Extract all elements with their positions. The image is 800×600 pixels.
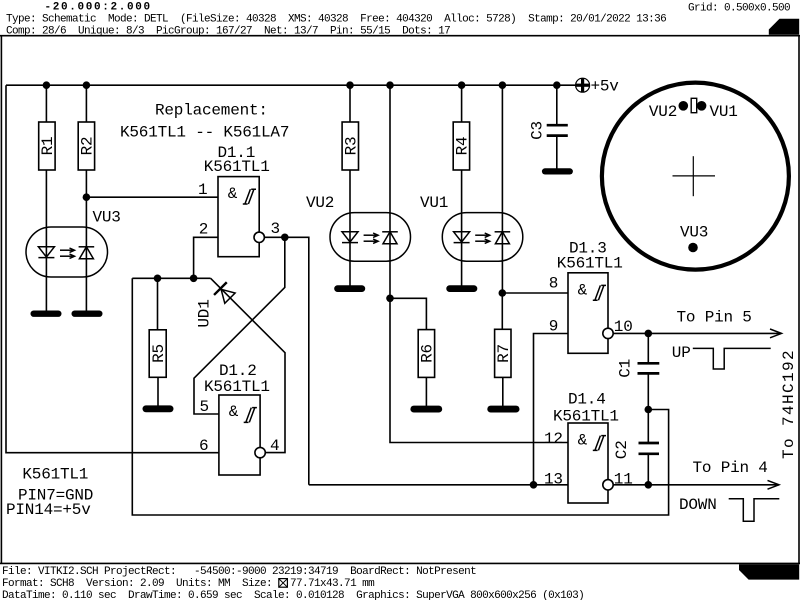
svg-text:&: &	[578, 432, 588, 450]
node junction dot pin9 pin13	[530, 481, 538, 489]
wire C1 column	[647, 333, 649, 409]
wire R1 column	[45, 85, 47, 311]
svg-text:2: 2	[199, 221, 208, 239]
svg-text:Format: SCH8 Version: 2.09 U: Format: SCH8 Version: 2.09 Units: MM Siz…	[2, 578, 375, 590]
svg-text:11: 11	[614, 471, 633, 489]
svg-text:Type: Schematic Mode: DETL (: Type: Schematic Mode: DETL (FileSize: 40…	[6, 14, 666, 26]
svg-text:To Pin 4: To Pin 4	[693, 459, 768, 477]
ground R5	[143, 405, 174, 412]
svg-text:C1: C1	[617, 359, 635, 378]
svg-text:9: 9	[549, 317, 558, 335]
resistor R3	[342, 122, 360, 170]
wire diagonal from D1.1 output to D1.2 pin 5	[194, 237, 285, 414]
svg-text:R6: R6	[419, 344, 437, 363]
svg-text:UD1: UD1	[196, 299, 214, 327]
encoder disc circle	[602, 83, 789, 270]
wire R5 column	[157, 278, 160, 406]
capacitor C1	[617, 359, 660, 378]
wire +5v rail	[6, 84, 576, 86]
workspace border	[0, 35, 800, 37]
label DOWN with pulse waveform	[679, 496, 779, 521]
node junction dot VU1 output	[499, 289, 507, 297]
svg-text:To 74HC192: To 74HC192	[780, 349, 798, 459]
status header row 0 bold coords	[6, 2, 790, 38]
wire R2 column	[85, 85, 87, 311]
svg-text:DataTime: 0.110 sec DrawTime:: DataTime: 0.110 sec DrawTime: 0.659 sec …	[2, 590, 584, 600]
svg-text:D1.4: D1.4	[568, 390, 606, 408]
resistor R7	[495, 329, 513, 377]
svg-text:Grid: 0.500x0.500: Grid: 0.500x0.500	[688, 3, 790, 15]
svg-text:K561TL1: K561TL1	[557, 254, 623, 272]
resistor R2	[78, 122, 96, 170]
svg-text:C3: C3	[529, 121, 547, 140]
optocoupler VU3	[26, 227, 108, 277]
svg-text:Replacement:: Replacement:	[155, 102, 268, 120]
capacitor C3	[529, 121, 568, 140]
wire D1.3 output to To Pin 5	[613, 332, 781, 334]
svg-text:VU1: VU1	[710, 103, 738, 121]
optocoupler VU2	[330, 213, 411, 262]
bottom-right black wedge	[739, 564, 799, 579]
power +5v symbol	[576, 78, 620, 96]
svg-text:6: 6	[199, 437, 208, 455]
svg-text:&: &	[228, 185, 238, 203]
node junction dot D1.3 out C1	[645, 330, 653, 338]
svg-text:VU2: VU2	[306, 194, 334, 212]
ground R6	[410, 406, 442, 413]
wire diagonal through diode UD1 to D1.2 output	[211, 278, 285, 452]
wire left drop from rail to D1.2 pin 6	[6, 85, 219, 453]
svg-text:R7: R7	[495, 344, 513, 363]
wire D1.1 pin 2 loop	[194, 237, 218, 278]
diode UD1	[214, 282, 236, 304]
svg-text:+5v: +5v	[591, 78, 620, 96]
node junction dot D1.4 out C2	[645, 481, 653, 489]
wire D1.3 pin 9 to pin 13 net	[534, 334, 569, 485]
wire D1.4 pin 13 input	[309, 484, 568, 486]
svg-text:R2: R2	[79, 137, 97, 156]
arrowhead To Pin 4	[768, 480, 780, 489]
label D1.2	[204, 362, 270, 396]
label UP with pulse waveform	[672, 344, 771, 369]
ground VU3 right	[72, 311, 103, 317]
svg-text:&: &	[578, 282, 588, 300]
svg-text:VU3: VU3	[93, 209, 121, 227]
svg-text:VU2: VU2	[649, 103, 677, 121]
top-right black wedge	[769, 19, 799, 35]
node junction dot D1.1 output	[281, 234, 289, 242]
node VU1 sensor dot on disc	[697, 101, 707, 111]
node junction dot C1 C2	[645, 406, 653, 414]
svg-text:13: 13	[544, 471, 563, 489]
footer	[2, 566, 584, 600]
svg-text:K561TL1: K561TL1	[204, 158, 270, 176]
op-amp gate D1.4	[568, 423, 613, 503]
op-amp gate D1.1	[218, 177, 264, 257]
svg-text:3: 3	[271, 220, 280, 238]
wire R4 column through VU1 LED	[461, 85, 463, 286]
ground C3	[542, 168, 573, 174]
op-amp gate D1.2	[219, 395, 265, 475]
svg-text:PIN14=+5v: PIN14=+5v	[6, 501, 91, 519]
wire D1.1 pin 1 input	[86, 196, 218, 198]
svg-text:&: &	[229, 403, 239, 421]
resistor R6	[418, 330, 436, 378]
svg-text:1: 1	[198, 181, 207, 199]
svg-text:K561TL1: K561TL1	[204, 378, 270, 396]
wire net278 down to bottom bus to C1C2 node	[132, 278, 668, 515]
disc slot window	[691, 98, 697, 112]
svg-text:R3: R3	[343, 137, 361, 156]
node VU2 sensor dot on disc	[679, 101, 689, 111]
wire VU1 output to R7 and D1.3 pin 8	[502, 293, 568, 406]
node VU3 sensor dot on disc	[688, 243, 698, 253]
wire VU2 output to R6 and D1.4 pin 12	[390, 298, 568, 442]
node junction dots net278	[154, 275, 198, 283]
arrowhead To Pin 5	[770, 329, 782, 338]
svg-text:5: 5	[200, 398, 209, 416]
node junction dot R2 to pin1	[83, 193, 91, 201]
wire VU2 phototriac column	[389, 85, 391, 298]
svg-text:C2: C2	[613, 440, 631, 459]
svg-text:UP: UP	[672, 344, 691, 362]
svg-text:8: 8	[549, 275, 558, 293]
wire node net278 horizontal	[132, 277, 210, 279]
resistor R1	[39, 122, 57, 170]
op-amp gate D1.3	[568, 273, 613, 354]
ground VU1	[446, 285, 477, 292]
ground VU2	[334, 285, 365, 292]
svg-text:VU3: VU3	[680, 223, 708, 241]
node junction dot VU2 output	[386, 295, 394, 303]
label D1.1	[204, 144, 270, 176]
svg-text:File: VITKI2.SCH ProjectRect:: File: VITKI2.SCH ProjectRect: -54500:-90…	[2, 566, 476, 578]
wire C2 column	[647, 410, 649, 485]
resistor R5	[149, 330, 168, 378]
svg-text:R1: R1	[39, 137, 57, 156]
wire D1.4 output to To Pin 4	[613, 484, 779, 486]
node junction dots on +5v rail	[43, 81, 561, 89]
svg-text:R5: R5	[150, 344, 168, 363]
label D1.4	[553, 390, 619, 425]
wire C3 column	[556, 85, 558, 169]
svg-text:K561TL1 -- K561LA7: K561TL1 -- K561LA7	[120, 124, 289, 142]
svg-text:DOWN: DOWN	[679, 496, 717, 514]
ground VU3 left	[31, 311, 62, 317]
svg-text:10: 10	[614, 318, 633, 336]
svg-text:R4: R4	[454, 137, 472, 156]
resistor R4	[453, 122, 471, 170]
svg-text:-20.000:2.000: -20.000:2.000	[45, 2, 152, 14]
ground R7	[487, 406, 519, 413]
wire D1.1 output to vertical feedback	[264, 237, 309, 484]
svg-text:K561TL1: K561TL1	[553, 407, 619, 425]
wire VU1 phototriac column	[501, 85, 503, 293]
svg-text:12: 12	[544, 430, 563, 448]
label Replacement note	[120, 102, 289, 142]
label D1.3	[557, 239, 623, 272]
svg-text:K561TL1: K561TL1	[22, 465, 88, 483]
label K561TL1 power pins note	[6, 465, 93, 519]
svg-text:4: 4	[270, 437, 279, 455]
svg-text:VU1: VU1	[420, 194, 448, 212]
optocoupler VU1	[442, 213, 523, 262]
wire R3 column through VU2 LED	[349, 85, 351, 286]
svg-text:To Pin 5: To Pin 5	[677, 309, 752, 327]
capacitor C2	[613, 440, 659, 459]
